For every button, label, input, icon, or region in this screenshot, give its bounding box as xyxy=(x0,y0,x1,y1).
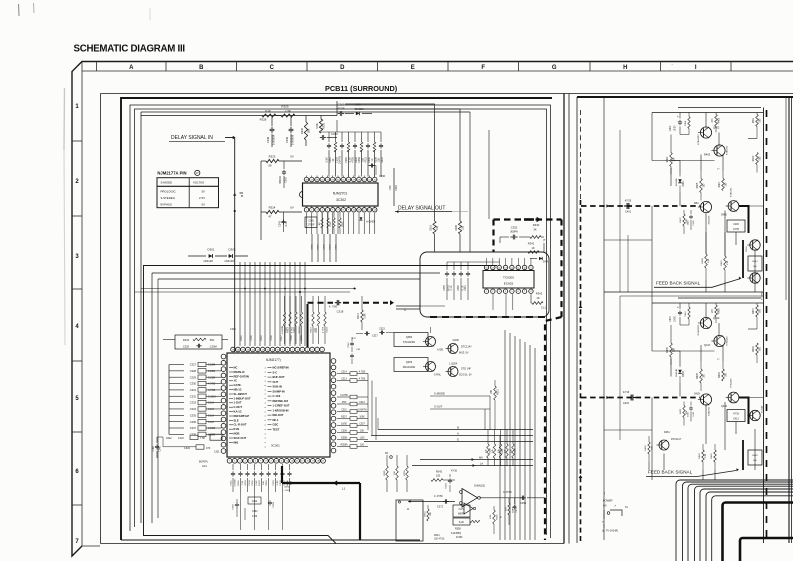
svg-text:R313: R313 xyxy=(310,327,312,333)
svg-text:PROLOGIC: PROLOGIC xyxy=(161,190,176,194)
transistor Q405 xyxy=(721,201,739,217)
svg-text:14: 14 xyxy=(296,461,298,463)
box H xyxy=(396,500,423,541)
svg-text:CL1: CL1 xyxy=(541,306,546,310)
svg-text:C396: C396 xyxy=(379,175,386,178)
svg-text:C410: C410 xyxy=(623,402,630,405)
svg-text:C336: C336 xyxy=(190,420,197,424)
svg-text:Q419: Q419 xyxy=(721,405,728,408)
wire fan bottom right xyxy=(500,330,535,540)
svg-text:MC/IN-IC: MC/IN-IC xyxy=(234,370,245,374)
svg-text:0.1M: 0.1M xyxy=(256,480,258,485)
svg-text:R312: R312 xyxy=(358,313,360,319)
svg-text:C345: C345 xyxy=(308,221,314,223)
svg-text:SUM(1/2): SUM(1/2) xyxy=(474,484,485,488)
resistor R459 50K xyxy=(645,436,654,462)
bus nest lines xyxy=(676,480,793,561)
svg-text:9: 9 xyxy=(282,349,283,351)
svg-text:C340: C340 xyxy=(160,446,162,452)
svg-text:0.1A: 0.1A xyxy=(450,285,453,290)
box C371 680PA xyxy=(453,505,480,525)
NJM2701 pin stubs xyxy=(307,206,375,208)
svg-text:R385: R385 xyxy=(384,470,386,476)
svg-text:18/50: 18/50 xyxy=(675,315,677,321)
capacitor C362 47/25 xyxy=(337,101,345,116)
wire opamp out xyxy=(480,491,546,505)
resistor R340 3K xyxy=(530,223,546,242)
dashed feedback line 2 xyxy=(581,391,700,405)
scan mark top-left xyxy=(19,3,35,16)
svg-text:C330: C330 xyxy=(190,382,197,386)
svg-text:C371: C371 xyxy=(459,508,465,511)
svg-text:3.3M: 3.3M xyxy=(277,480,279,485)
NJM2177 bottom pins xyxy=(227,458,325,463)
sub-board C outline xyxy=(404,252,549,317)
svg-text:D31A: D31A xyxy=(430,225,433,231)
svg-text:C350: C350 xyxy=(331,132,338,136)
svg-text:S-MODE: S-MODE xyxy=(161,180,173,184)
dashed feedback path right xyxy=(579,110,583,543)
svg-text:4.7/50: 4.7/50 xyxy=(359,379,366,381)
svg-text:5V: 5V xyxy=(290,155,294,159)
svg-text:908/30: 908/30 xyxy=(279,176,282,184)
signal into box xyxy=(396,306,445,309)
svg-text:0V: 0V xyxy=(290,206,294,210)
bus nest thick frame xyxy=(723,503,793,561)
transistor Q421 xyxy=(721,392,739,408)
svg-text:47K: 47K xyxy=(506,507,508,511)
svg-text:D301: D301 xyxy=(208,248,215,252)
svg-text:M5A: M5A xyxy=(694,202,699,205)
svg-text:1.8K: 1.8K xyxy=(490,514,492,519)
resistor R351 1.8K xyxy=(490,506,503,534)
svg-text:R341: R341 xyxy=(528,242,535,246)
svg-text:7.5K: 7.5K xyxy=(242,480,244,485)
svg-text:18K: 18K xyxy=(307,128,311,133)
svg-text:2700P: 2700P xyxy=(308,225,315,227)
svg-text:C416: C416 xyxy=(685,311,687,317)
resistors R385 10K R359 xyxy=(384,455,408,492)
svg-text:R324: R324 xyxy=(269,206,276,210)
svg-text:R411: R411 xyxy=(753,117,755,123)
svg-text:B: B xyxy=(241,194,243,198)
transistor Q406 xyxy=(746,240,760,252)
svg-text:47/16: 47/16 xyxy=(451,470,458,473)
transistor Q303 xyxy=(394,358,442,377)
svg-text:C415: C415 xyxy=(670,316,672,322)
svg-text:C354: C354 xyxy=(345,156,348,162)
resistor R331 5.6K xyxy=(315,116,326,134)
svg-text:S RAL: S RAL xyxy=(434,374,442,377)
svg-text:R443: R443 xyxy=(699,453,701,459)
svg-text:R351: R351 xyxy=(497,514,499,520)
svg-text:C403: C403 xyxy=(670,125,672,131)
svg-text:H: H xyxy=(623,65,627,71)
svg-text:NC-S/REF/IN: NC-S/REF/IN xyxy=(273,366,289,370)
thick stub ch2 xyxy=(742,440,744,470)
svg-text:D432: D432 xyxy=(683,371,685,377)
svg-text:18: 18 xyxy=(237,349,239,351)
resistor R312 100K xyxy=(358,296,367,330)
svg-text:47/16: 47/16 xyxy=(733,414,739,416)
svg-text:MUZ: 5V: MUZ: 5V xyxy=(459,352,469,355)
bus lines ABE xyxy=(364,425,533,441)
svg-text:C323: C323 xyxy=(230,328,236,331)
svg-text:SC/F-OUT: SC/F-OUT xyxy=(234,436,247,440)
svg-text:TEST: TEST xyxy=(273,427,280,431)
resistor R342 1K xyxy=(531,292,546,310)
svg-text:10K: 10K xyxy=(394,471,396,475)
svg-text:LA: LA xyxy=(480,463,483,466)
svg-text:S-OUT: S-OUT xyxy=(434,405,443,409)
svg-text:R410: R410 xyxy=(721,260,723,266)
note TV-1414A xyxy=(602,492,618,533)
svg-text:K14455Q: K14455Q xyxy=(451,532,461,535)
svg-text:R445: R445 xyxy=(752,455,758,457)
svg-text:8: 8 xyxy=(265,461,266,463)
svg-text:R426: R426 xyxy=(719,308,721,314)
resistor R343 150 xyxy=(431,471,455,482)
svg-text:1.5K: 1.5K xyxy=(708,258,710,263)
svg-text:R435: R435 xyxy=(667,347,669,353)
NJM2177 left pins xyxy=(221,354,226,453)
svg-text:150: 150 xyxy=(436,475,441,478)
svg-text:4: 4 xyxy=(307,349,308,351)
svg-text:SUB-IN: SUB-IN xyxy=(273,385,282,389)
svg-text:13: 13 xyxy=(291,461,293,463)
svg-text:C412: C412 xyxy=(733,418,739,420)
table NJM2177A PIN xyxy=(157,170,219,207)
svg-text:NGB: NGB xyxy=(234,432,240,436)
svg-text:A: A xyxy=(129,65,134,71)
svg-text:C411: C411 xyxy=(693,411,695,417)
capacitor C323 xyxy=(379,328,394,335)
svg-text:C352: C352 xyxy=(511,226,518,230)
svg-text:7: 7 xyxy=(260,461,261,463)
svg-text:150 47/16: 150 47/16 xyxy=(434,539,445,541)
resistor R433 C411 xyxy=(680,402,695,426)
transistor Q420 xyxy=(747,405,763,421)
svg-text:DTC114Y: DTC114Y xyxy=(461,346,472,349)
svg-text:2: 2 xyxy=(234,461,235,463)
svg-text:C369: C369 xyxy=(520,502,527,505)
svg-text:C316: C316 xyxy=(348,342,350,348)
svg-text:9: 9 xyxy=(271,461,272,463)
svg-text:C406: C406 xyxy=(733,224,739,226)
svg-text:Q402: Q402 xyxy=(713,126,720,130)
svg-text:C332: C332 xyxy=(190,394,197,398)
svg-text:R405: R405 xyxy=(697,182,699,188)
wires right mid xyxy=(604,130,763,480)
svg-text:47: 47 xyxy=(268,215,272,219)
svg-text:R358: R358 xyxy=(455,528,461,531)
svg-text:A: A xyxy=(457,431,459,435)
svg-text:R343: R343 xyxy=(436,471,443,474)
svg-text:TC3280: TC3280 xyxy=(762,291,764,299)
content boundary xyxy=(101,94,793,544)
svg-text:10K: 10K xyxy=(430,512,432,516)
svg-text:R430: R430 xyxy=(746,246,748,252)
svg-text:R412: R412 xyxy=(753,155,755,161)
svg-text:FEED BACK SIGNAL: FEED BACK SIGNAL xyxy=(656,281,701,286)
svg-text:C322: C322 xyxy=(252,501,258,503)
svg-text:R325: R325 xyxy=(281,105,289,109)
svg-text:11: 11 xyxy=(272,349,274,351)
svg-text:1N4148: 1N4148 xyxy=(203,259,213,263)
scan streak left margin xyxy=(64,8,150,345)
capacitor C316 xyxy=(348,337,361,364)
svg-text:16: 16 xyxy=(247,349,249,351)
component rows right of NJM2177 xyxy=(337,372,368,449)
svg-text:1-OUT: 1-OUT xyxy=(234,401,242,405)
pcb outline right board xyxy=(577,97,793,543)
wires Q block xyxy=(431,327,491,430)
svg-text:C372: C372 xyxy=(437,506,444,509)
svg-text:REI-OUT: REI-OUT xyxy=(273,413,284,417)
labels above NJM2177 xyxy=(230,288,306,341)
wire upper bus xyxy=(321,120,381,132)
svg-text:1K: 1K xyxy=(536,296,539,300)
svg-text:G41: G41 xyxy=(202,465,207,468)
svg-text:C367: C367 xyxy=(395,184,398,190)
svg-text:1: 1 xyxy=(229,461,230,463)
svg-text:ON: ON xyxy=(603,506,607,508)
svg-text:5: 5 xyxy=(250,461,251,463)
svg-text:R301: R301 xyxy=(238,480,240,486)
svg-text:47K: 47K xyxy=(206,447,211,450)
svg-text:C360: C360 xyxy=(458,285,460,291)
component column group C351-R337 xyxy=(325,132,384,177)
capacitor C396 xyxy=(368,164,386,179)
svg-text:POWER: POWER xyxy=(603,500,613,503)
svg-text:KTA1023N: KTA1023N xyxy=(403,341,415,344)
svg-text:3.3M: 3.3M xyxy=(325,157,328,162)
wire horizontals mid xyxy=(135,288,357,294)
svg-text:NJM2177A PIN: NJM2177A PIN xyxy=(157,171,186,176)
wire to R339 xyxy=(360,109,460,221)
svg-text:C338: C338 xyxy=(190,432,197,436)
resistors R408 R410 R413 xyxy=(702,232,762,280)
svg-text:1N414B: 1N414B xyxy=(676,369,678,377)
svg-text:2.5V: 2.5V xyxy=(199,196,205,200)
wire drops into NJM2177 xyxy=(240,262,305,346)
svg-text:R406: R406 xyxy=(719,117,721,123)
capacitors C358 C360 group xyxy=(444,262,500,300)
svg-text:R340: R340 xyxy=(533,223,540,227)
svg-text:3-STEREO: 3-STEREO xyxy=(161,196,176,200)
svg-text:17: 17 xyxy=(312,461,314,463)
resistor R319 56K box xyxy=(175,335,222,349)
right edge rails xyxy=(764,97,792,543)
svg-text:R413: R413 xyxy=(752,261,758,263)
svg-text:F: F xyxy=(481,65,485,71)
svg-text:30/50: 30/50 xyxy=(284,487,290,489)
box C406 47/25 xyxy=(727,220,745,232)
wires right verticals xyxy=(470,105,616,258)
resistor bank R368 xyxy=(485,430,516,467)
svg-text:R323: R323 xyxy=(269,155,276,159)
svg-text:680PA: 680PA xyxy=(458,512,465,515)
svg-text:SCHEMATIC DIAGRAM III: SCHEMATIC DIAGRAM III xyxy=(74,44,186,55)
svg-text:REF-OUT/IN: REF-OUT/IN xyxy=(234,374,249,378)
transistor Q304 xyxy=(446,363,473,377)
svg-text:EC603: EC603 xyxy=(504,282,514,286)
dashed signal path out xyxy=(430,217,562,540)
svg-text:NF-1: NF-1 xyxy=(273,418,279,422)
switch POWER xyxy=(602,500,629,524)
bold corner ch2 xyxy=(739,398,749,425)
svg-text:NJM2177): NJM2177) xyxy=(266,358,281,362)
IC U2 TC9200 body xyxy=(483,271,534,289)
arrow delay in vertical xyxy=(233,193,243,198)
NJM2701 top pin stubs xyxy=(307,176,375,178)
svg-text:Q302: Q302 xyxy=(453,338,460,342)
svg-text:R344: R344 xyxy=(434,535,440,537)
svg-text:E: E xyxy=(457,437,459,441)
svg-text:3.3M: 3.3M xyxy=(153,446,155,451)
labels S-MODE S-OUT xyxy=(430,392,490,410)
lower board outline xyxy=(144,266,498,544)
svg-text:14: 14 xyxy=(257,349,259,351)
svg-text:R337: R337 xyxy=(381,156,384,162)
svg-text:47/16: 47/16 xyxy=(623,391,630,394)
svg-text:3K: 3K xyxy=(533,227,536,231)
svg-text:D80: D80 xyxy=(355,103,361,107)
svg-text:R317: R317 xyxy=(281,335,283,341)
capacitor C352 300PA xyxy=(487,226,531,259)
bus lines MA LA xyxy=(385,452,533,467)
svg-text:BYPASS: BYPASS xyxy=(161,202,172,206)
svg-text:R322: R322 xyxy=(329,244,331,250)
svg-text:R433: R433 xyxy=(680,408,682,414)
svg-text:17: 17 xyxy=(242,349,244,351)
transistor D431 xyxy=(657,431,682,450)
cluster below NJM2177 xyxy=(230,464,291,492)
svg-text:+: + xyxy=(677,115,679,119)
svg-text:Q303: Q303 xyxy=(406,360,413,364)
svg-text:1/50: 1/50 xyxy=(389,185,392,190)
svg-text:150: 150 xyxy=(462,225,465,230)
transistor Q419 xyxy=(694,394,712,416)
svg-text:3: 3 xyxy=(312,349,313,351)
svg-text:D302: D302 xyxy=(229,248,236,252)
svg-text:TC3280: TC3280 xyxy=(762,405,764,413)
svg-text:16/50: 16/50 xyxy=(341,424,347,426)
svg-text:0.1M: 0.1M xyxy=(178,437,184,440)
svg-text:1N4148: 1N4148 xyxy=(224,259,234,263)
svg-text:D401: D401 xyxy=(683,180,685,186)
bold corner ch1 xyxy=(739,206,749,233)
svg-text:1-C/REF-OUT: 1-C/REF-OUT xyxy=(273,404,290,408)
svg-text:4700: 4700 xyxy=(351,157,354,163)
capacitor C342 xyxy=(279,161,288,188)
op-amp U4 SUM xyxy=(460,484,486,515)
svg-text:C307: C307 xyxy=(359,424,365,426)
wire left stub xyxy=(260,161,262,240)
wires right drops xyxy=(368,374,376,441)
row 3322 xyxy=(166,434,222,440)
svg-text:C328: C328 xyxy=(190,369,197,373)
svg-text:C401: C401 xyxy=(625,211,632,214)
svg-text:': ' xyxy=(672,63,673,68)
svg-text:5: 5 xyxy=(302,349,303,351)
resistor R310 18K xyxy=(491,380,500,430)
svg-text:Q384: Q384 xyxy=(406,335,413,339)
wire R319 leads xyxy=(163,340,228,346)
svg-text:R331: R331 xyxy=(322,122,326,129)
NJM2177 right pins xyxy=(331,359,336,453)
wire top rail xyxy=(141,104,337,116)
svg-text:0. 47/50: 0. 47/50 xyxy=(434,495,443,498)
IC U3 NJM2177 body xyxy=(227,353,330,457)
svg-text:33K: 33K xyxy=(674,347,676,352)
svg-text:C364: C364 xyxy=(446,483,448,489)
svg-text:12: 12 xyxy=(286,461,288,463)
svg-text:0V: 0V xyxy=(201,202,205,206)
svg-text:S-C: S-C xyxy=(273,370,278,374)
svg-text:15: 15 xyxy=(252,349,254,351)
svg-text:6.1A: 6.1A xyxy=(461,285,464,290)
svg-text:SCSI 3L: 5V: SCSI 3L: 5V xyxy=(459,375,472,377)
wires below to bottom xyxy=(241,492,283,530)
svg-text:C363: C363 xyxy=(273,480,275,486)
TC9200 top pins xyxy=(484,265,533,269)
NJM2701 bottom pins xyxy=(304,208,377,213)
grid row ticks xyxy=(72,141,82,505)
svg-text:R359A: R359A xyxy=(340,444,347,447)
svg-text:R403: R403 xyxy=(667,156,669,162)
label DELAY SIGNAL IN xyxy=(169,135,225,141)
transistor Q302 xyxy=(446,338,473,355)
svg-text:11: 11 xyxy=(281,461,283,463)
wire to R338 xyxy=(345,104,435,221)
svg-text:13: 13 xyxy=(262,349,264,351)
svg-text:B: B xyxy=(457,425,459,429)
svg-text:33/50: 33/50 xyxy=(266,479,268,485)
svg-text:KTA1266: KTA1266 xyxy=(708,406,711,415)
resistor R330 18K xyxy=(300,116,311,147)
svg-text:H: H xyxy=(407,507,409,511)
svg-text:3322: 3322 xyxy=(166,437,172,440)
svg-text:6: 6 xyxy=(297,349,298,351)
svg-text:7: 7 xyxy=(292,349,293,351)
svg-text:R328: R328 xyxy=(260,118,267,122)
grid column ticks xyxy=(97,62,732,72)
svg-text:150: 150 xyxy=(436,225,439,230)
resistor R338 150 xyxy=(430,221,440,252)
svg-text:47/25: 47/25 xyxy=(625,200,632,203)
svg-text:C362: C362 xyxy=(252,511,258,513)
svg-text:300PA: 300PA xyxy=(510,230,518,234)
svg-text:R354: R354 xyxy=(425,511,427,517)
svg-text:C343: C343 xyxy=(279,220,282,226)
svg-text:R437: R437 xyxy=(753,308,755,314)
svg-text:3C302: 3C302 xyxy=(336,198,346,202)
capacitor C350 xyxy=(320,132,338,140)
resistor R339 150 xyxy=(455,221,465,252)
label G41 xyxy=(199,461,208,469)
svg-text:0.1A: 0.1A xyxy=(285,221,288,226)
svg-text:1: 1 xyxy=(322,349,323,351)
svg-text:18K: 18K xyxy=(491,389,493,394)
svg-text:NC: NC xyxy=(234,366,238,370)
svg-text:4: 4 xyxy=(245,461,246,463)
svg-text:C323: C323 xyxy=(379,328,385,331)
svg-text:GATE: GATE xyxy=(234,383,241,387)
svg-text:PCB11 (SURROUND): PCB11 (SURROUND) xyxy=(325,84,398,93)
svg-text:3C301: 3C301 xyxy=(271,444,280,448)
svg-text:L1: L1 xyxy=(342,487,346,491)
